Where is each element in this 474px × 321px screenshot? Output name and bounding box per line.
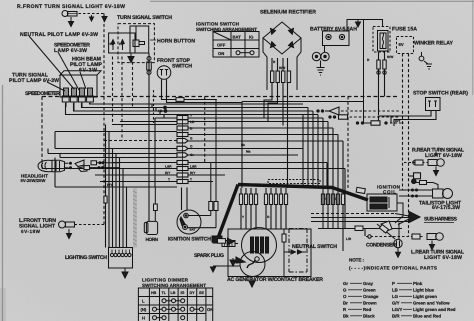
svg-text:6V: 6V (399, 42, 404, 47)
svg-text:L&R: L&R (165, 165, 172, 169)
svg-text:R.FRONT TURN SIGNAL LIGHT 6V-1: R.FRONT TURN SIGNAL LIGHT 6V-18W (17, 4, 125, 10)
svg-text:L&R: L&R (190, 165, 197, 169)
svg-text:Gray: Gray (363, 281, 374, 286)
svg-text:H: H (142, 316, 145, 321)
svg-text:BAT: BAT (190, 228, 196, 232)
svg-text:TL: TL (162, 291, 167, 295)
svg-text:L/R: L/R (346, 237, 352, 241)
svg-text:Light green: Light green (413, 294, 437, 299)
svg-text:6V-18W: 6V-18W (21, 229, 41, 234)
svg-text:LG: LG (392, 294, 399, 299)
svg-text:OFF: OFF (217, 43, 226, 48)
svg-text:LIGHT 6V-18W: LIGHT 6V-18W (425, 153, 462, 159)
svg-text:ON: ON (218, 51, 224, 56)
svg-text:HORN BUTTON: HORN BUTTON (157, 39, 195, 45)
svg-text:NEUTRAL PILOT LAMP 6V-3W: NEUTRAL PILOT LAMP 6V-3W (20, 32, 98, 38)
svg-text:IG: IG (181, 291, 185, 295)
svg-text:IGNITION SWITCH: IGNITION SWITCH (168, 237, 211, 243)
svg-text:Light blue: Light blue (413, 287, 435, 292)
svg-text:G/Y: G/Y (392, 300, 400, 305)
svg-text:Br: Br (343, 300, 348, 305)
svg-text:Pink: Pink (413, 281, 423, 286)
svg-text:R/W: R/W (387, 55, 393, 59)
svg-text:Orange: Orange (363, 294, 379, 299)
svg-text:STOP SWITCH (REAR): STOP SWITCH (REAR) (413, 91, 468, 97)
svg-text:FUSE 15A: FUSE 15A (392, 27, 417, 33)
svg-text:R/Y: R/Y (190, 171, 196, 175)
svg-text:SPARK PLUG: SPARK PLUG (194, 253, 224, 259)
svg-text:L: L (142, 299, 145, 304)
svg-text:R/W: R/W (279, 66, 285, 70)
svg-text:BATTERY 6V-5.5AH: BATTERY 6V-5.5AH (310, 27, 357, 33)
svg-text:IGNITION SWITCH: IGNITION SWITCH (196, 22, 240, 27)
svg-text:Green and Yellow: Green and Yellow (413, 300, 450, 305)
svg-text:Black: Black (363, 313, 375, 318)
svg-text:T: T (190, 178, 192, 182)
svg-text:CONDENSER: CONDENSER (366, 243, 396, 249)
svg-text:ON: ON (207, 307, 213, 312)
svg-text:SELENIUM RECTIFIER: SELENIUM RECTIFIER (260, 10, 316, 16)
svg-text:LB: LB (392, 287, 398, 292)
svg-text:HB: HB (151, 291, 157, 295)
svg-text:Ma: Ma (246, 150, 251, 154)
svg-text:SWITCH: SWITCH (172, 64, 192, 70)
svg-text:Bk: Bk (343, 313, 349, 318)
svg-text:6V-17/5.3W: 6V-17/5.3W (432, 205, 460, 211)
svg-text:LIGHTING SWITCH: LIGHTING SWITCH (65, 255, 107, 261)
svg-text:(- - - -)INDICATE OPTIONAL PAR: (- - - -)INDICATE OPTIONAL PARTS (349, 266, 437, 271)
svg-text:SE: SE (199, 291, 204, 295)
svg-text:Light green and Red: Light green and Red (413, 307, 456, 312)
svg-text:WINKER RELAY: WINKER RELAY (414, 41, 454, 47)
svg-text:Gr: Gr (343, 281, 348, 286)
svg-text:TURN SIGNAL SWITCH: TURN SIGNAL SWITCH (117, 15, 172, 21)
svg-text:(N): (N) (141, 307, 147, 312)
svg-text:LG/Y: LG/Y (392, 307, 402, 312)
svg-text:6V-25W/25W: 6V-25W/25W (21, 178, 46, 183)
svg-text:Brown: Brown (363, 300, 377, 305)
svg-text:BAT: BAT (233, 35, 242, 40)
svg-text:LIGHT 6V-18W: LIGHT 6V-18W (424, 255, 462, 261)
svg-text:G: G (343, 287, 347, 292)
svg-text:AC GENERATOR W/CONTACT BREAKER: AC GENERATOR W/CONTACT BREAKER (227, 277, 323, 283)
svg-text:NEUTRAL SWITCH: NEUTRAL SWITCH (292, 244, 337, 250)
svg-text:P: P (392, 281, 395, 286)
svg-text:SWITCHING ARRANGEMENT: SWITCHING ARRANGEMENT (142, 283, 206, 288)
svg-text:LIGHTING DIMMER: LIGHTING DIMMER (142, 278, 189, 283)
svg-text:NOTE :: NOTE : (349, 258, 364, 263)
svg-text:LB: LB (171, 291, 176, 295)
svg-text:Blue and Red: Blue and Red (413, 313, 441, 318)
svg-text:Red: Red (363, 307, 372, 312)
svg-text:T: T (168, 178, 170, 182)
svg-text:PILOT LAMP 6V-3W: PILOT LAMP 6V-3W (9, 78, 59, 84)
svg-text:HORN: HORN (146, 237, 159, 242)
svg-text:R/Y: R/Y (165, 171, 171, 175)
svg-text:Green: Green (363, 287, 376, 292)
svg-text:B/R: B/R (392, 313, 400, 318)
svg-text:DY: DY (190, 291, 196, 295)
svg-text:O: O (343, 294, 347, 299)
svg-text:SUB HARNESS: SUB HARNESS (424, 217, 458, 223)
svg-text:IG: IG (249, 35, 253, 40)
